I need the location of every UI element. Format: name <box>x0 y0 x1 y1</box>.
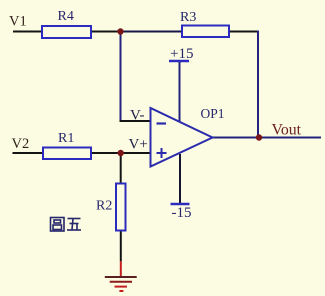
svg-text:OP1: OP1 <box>201 106 225 121</box>
svg-text:-15: -15 <box>172 205 192 221</box>
svg-text:R3: R3 <box>180 10 196 25</box>
svg-text:+15: +15 <box>170 46 193 62</box>
svg-text:R2: R2 <box>96 199 112 214</box>
svg-text:R4: R4 <box>58 9 74 24</box>
svg-text:V-: V- <box>130 107 144 123</box>
svg-text:V2: V2 <box>12 136 30 152</box>
svg-text:Vout: Vout <box>272 122 302 139</box>
svg-text:R1: R1 <box>58 131 74 146</box>
svg-text:V1: V1 <box>9 14 27 30</box>
svg-text:V+: V+ <box>129 137 148 153</box>
